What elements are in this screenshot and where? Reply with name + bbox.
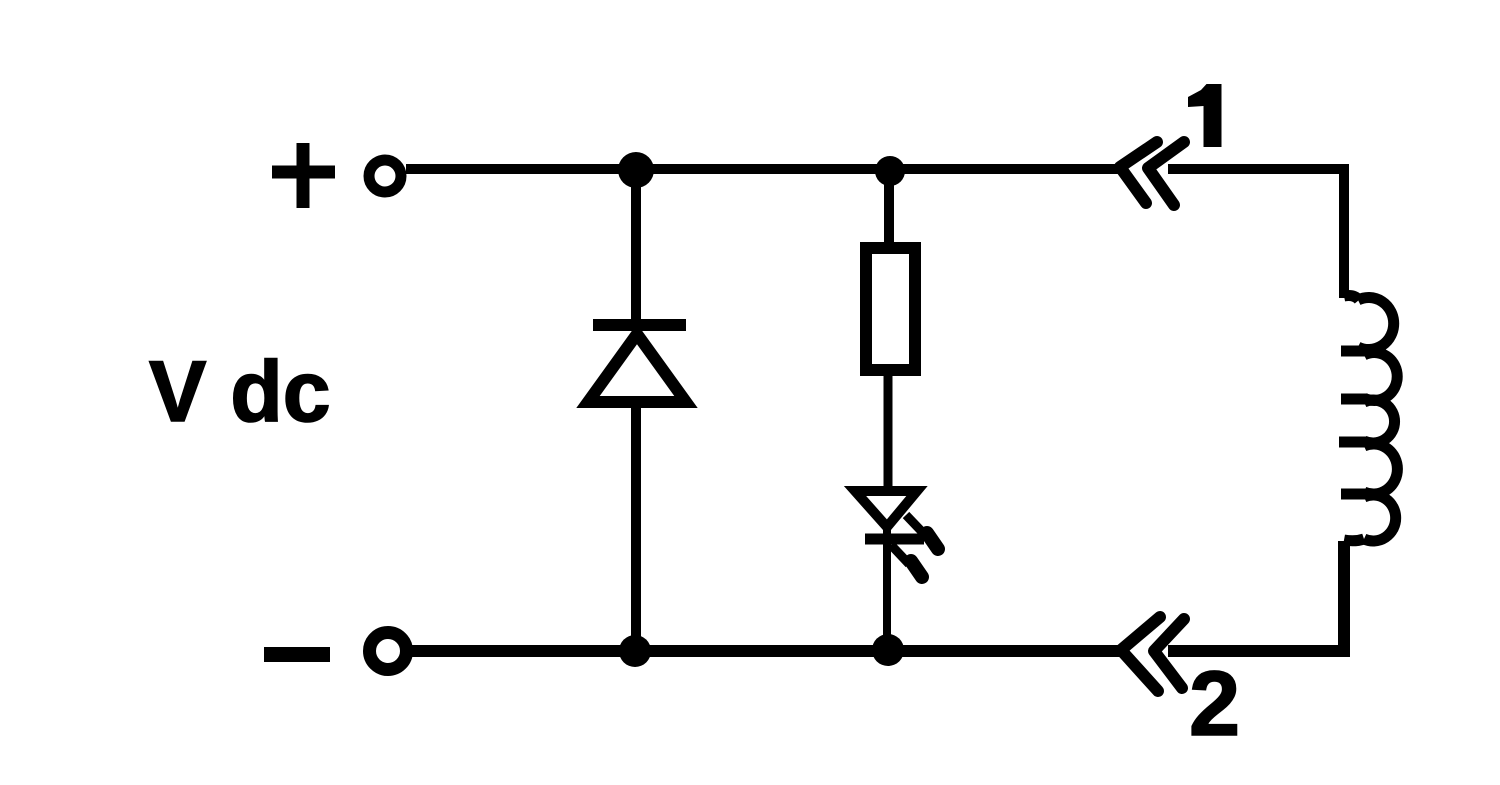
svg-text:2: 2 (1189, 653, 1240, 755)
svg-text:V dc: V dc (149, 344, 331, 440)
